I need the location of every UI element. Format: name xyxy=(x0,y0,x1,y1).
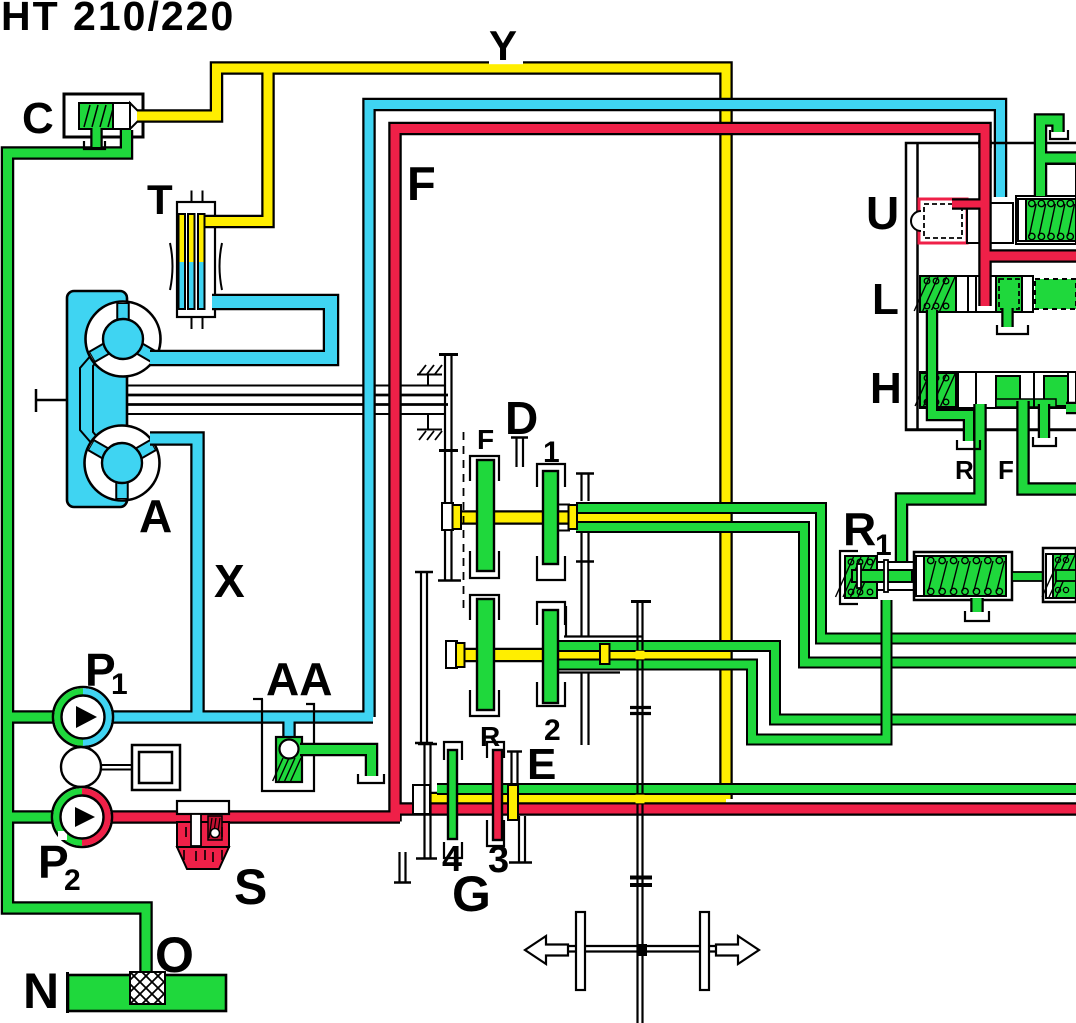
svg-text:Y: Y xyxy=(489,22,517,69)
svg-text:R: R xyxy=(843,503,876,555)
svg-text:S: S xyxy=(234,859,267,915)
svg-text:F: F xyxy=(407,157,436,210)
svg-text:D: D xyxy=(505,392,538,444)
svg-text:H: H xyxy=(870,364,902,413)
svg-text:AA: AA xyxy=(266,653,332,705)
svg-text:R: R xyxy=(480,721,500,752)
svg-text:1: 1 xyxy=(543,436,560,469)
svg-text:L: L xyxy=(872,275,899,324)
svg-text:4: 4 xyxy=(442,838,462,879)
svg-text:T: T xyxy=(147,176,173,223)
svg-text:F: F xyxy=(477,424,494,455)
svg-text:2: 2 xyxy=(64,864,81,897)
svg-text:HT 210/220: HT 210/220 xyxy=(1,0,235,39)
svg-text:U: U xyxy=(866,187,899,239)
svg-text:N: N xyxy=(23,963,59,1019)
svg-text:C: C xyxy=(22,94,54,143)
svg-text:O: O xyxy=(155,927,194,983)
svg-text:1: 1 xyxy=(875,529,892,562)
svg-text:E: E xyxy=(527,740,556,789)
svg-text:X: X xyxy=(214,555,245,607)
svg-text:F: F xyxy=(998,455,1014,485)
svg-text:3: 3 xyxy=(488,839,509,881)
svg-text:R: R xyxy=(955,455,974,485)
svg-text:A: A xyxy=(139,490,172,542)
svg-text:1: 1 xyxy=(111,668,128,701)
